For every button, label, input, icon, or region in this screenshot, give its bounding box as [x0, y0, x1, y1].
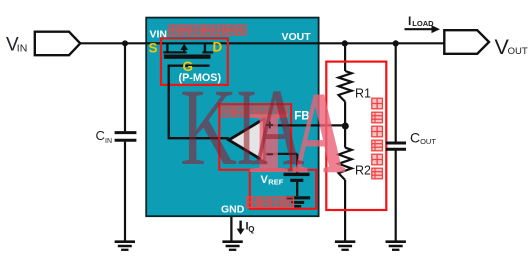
box: pass transistor annotation (red): [161, 38, 228, 85]
wire: FB to + input: [264, 124, 345, 126]
label I_Q: [246, 220, 255, 234]
label I_LOAD: [408, 14, 434, 28]
current IQ arrow: [237, 221, 245, 235]
label: 分压取样电路 (divider sampling circuit, vertical): [372, 98, 383, 179]
svg-text:GND: GND: [221, 203, 245, 215]
svg-text:IN: IN: [17, 43, 28, 55]
svg-text:C: C: [96, 128, 105, 143]
svg-text:R2: R2: [355, 164, 371, 178]
wire: gate to error amp output: [169, 66, 229, 139]
ground (GND pin): [222, 242, 242, 250]
wire: GND pin to ground: [230, 217, 232, 241]
svg-text:A: A: [251, 67, 305, 189]
wire: - input to VREF: [264, 153, 297, 155]
svg-text:IN: IN: [105, 138, 112, 145]
reference VREF battery symbol: [284, 174, 311, 206]
resistor R2: [339, 148, 352, 180]
op-amp - input sign (overlay): [267, 153, 273, 155]
box: error amplifier annotation (red): [219, 104, 291, 170]
label V_IN (input): [6, 35, 27, 56]
label C_IN: [96, 128, 113, 145]
watermark pink A: [292, 68, 346, 198]
resistor R1: [339, 71, 352, 102]
ground (R2): [335, 242, 355, 250]
node: FB junction: [342, 123, 349, 130]
LDO IC body (teal): [146, 18, 318, 217]
svg-text:D: D: [213, 40, 223, 55]
label C_OUT: [410, 129, 436, 146]
box: voltage divider annotation (red): [326, 62, 386, 210]
label: 基准电压 (reference voltage): [247, 197, 294, 207]
op-amp U1 error amplifier: [229, 119, 264, 162]
svg-text:OUT: OUT: [508, 46, 528, 57]
wire: R2 to ground: [344, 180, 346, 241]
label V_REF: [261, 174, 284, 187]
op-amp - input sign: [267, 153, 273, 155]
wire: divider branch upper: [344, 43, 346, 71]
node: input junction: [122, 40, 128, 46]
label: 晶体管调整电路 (transistor adjust circuit): [168, 25, 246, 35]
wire: CIN branch: [124, 43, 126, 131]
svg-text:LOAD: LOAD: [412, 19, 434, 28]
op-amp + input sign: [266, 122, 273, 129]
ground (CIN): [115, 242, 135, 250]
label: 误差放大电路 (error amplifier circuit): [222, 107, 288, 117]
box: reference voltage annotation (red): [250, 170, 316, 209]
node: COUT junction on rail: [393, 40, 399, 46]
transistor Q1 P-MOS pass element: [163, 43, 213, 65]
watermark KIA (dark layer): [180, 66, 305, 188]
svg-text:VOUT: VOUT: [282, 31, 312, 43]
current ILOAD arrow: [405, 25, 441, 33]
label V_OUT (output): [495, 35, 528, 59]
svg-text:OUT: OUT: [420, 137, 436, 146]
output terminal symbol (VOUT): [444, 30, 489, 54]
wire: VIN to VOUT top rail: [80, 42, 445, 44]
capacitor CIN: [115, 131, 137, 134]
svg-text:I: I: [408, 14, 411, 28]
node: divider junction on rail: [342, 40, 348, 46]
ground (COUT): [386, 242, 406, 250]
input terminal symbol (VIN): [35, 32, 80, 56]
svg-text:S: S: [149, 41, 158, 56]
wire: R1 to R2: [344, 102, 346, 148]
svg-text:C: C: [410, 129, 420, 145]
op-amp + input sign (overlay): [266, 122, 273, 129]
svg-text:Q: Q: [248, 225, 254, 234]
svg-text:R1: R1: [355, 87, 371, 101]
wire: COUT branch: [395, 43, 397, 141]
capacitor COUT: [386, 142, 406, 145]
svg-text:K: K: [180, 66, 237, 188]
watermark pink I stem: [246, 94, 292, 192]
